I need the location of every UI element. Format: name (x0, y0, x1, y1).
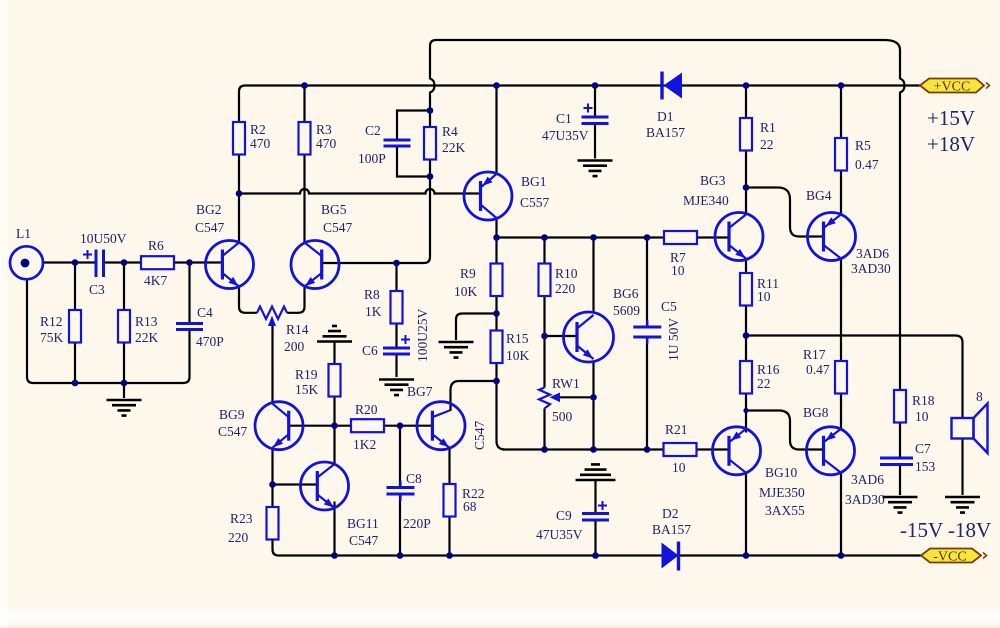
node BG1 emitter on bus (493, 82, 500, 89)
svg-text:BG6: BG6 (613, 286, 639, 301)
svg-text:R13: R13 (135, 314, 158, 329)
resistor R20 (351, 419, 384, 432)
capacitor C3 electrolytic (96, 250, 104, 278)
svg-text:R19: R19 (295, 367, 318, 382)
svg-text:10U50V: 10U50V (80, 231, 127, 246)
ground input section (107, 400, 142, 416)
svg-text:C9: C9 (556, 508, 572, 523)
svg-text:C547: C547 (195, 220, 225, 235)
node R5 top on bus (838, 82, 845, 89)
power flag +VCC (920, 79, 984, 93)
wire ground branch from R9/R15 junction (456, 314, 497, 341)
wire BG1 collector to rail (495, 218, 497, 238)
svg-text:22: 22 (757, 376, 771, 391)
svg-text:C1: C1 (556, 111, 572, 126)
svg-text:15K: 15K (295, 382, 319, 397)
wire speaker bottom to ground (961, 439, 963, 496)
node R12 bottom (72, 380, 79, 387)
resistor R19 (329, 364, 341, 397)
node C8 tap (397, 422, 404, 429)
svg-text:C3: C3 (89, 282, 105, 297)
svg-text:75K: 75K (40, 330, 64, 345)
svg-text:47U35V: 47U35V (536, 527, 583, 542)
node R13 bottom ground (121, 380, 128, 387)
wire base line y=193.5 R2 to BG1 (239, 189, 481, 194)
svg-text:BG4: BG4 (806, 188, 832, 203)
svg-text:3AX55: 3AX55 (765, 503, 805, 518)
ground above C9 inverted (576, 464, 616, 480)
node C8 bottom rail (397, 552, 404, 559)
svg-text:MJE340: MJE340 (683, 193, 729, 208)
node BG6 emitter rail (590, 446, 597, 453)
diode D1 BA157 (664, 73, 683, 99)
diode D2 BA157 (662, 543, 679, 569)
transistor BG4 3AD6 pnp (808, 213, 856, 261)
svg-text:RW1: RW1 (552, 376, 580, 391)
svg-text:153: 153 (915, 459, 936, 474)
wire input ground stub (123, 383, 125, 398)
svg-text:BG1: BG1 (521, 174, 547, 189)
svg-text:BG3: BG3 (700, 173, 726, 188)
svg-text:C7: C7 (915, 441, 931, 456)
wire BG7 emitter R22 (448, 448, 450, 556)
svg-text:R2: R2 (250, 122, 266, 137)
resistor R2 (233, 122, 245, 155)
svg-text:R6: R6 (148, 238, 164, 253)
wire feedback line from output to R4/BG5 base (322, 40, 436, 263)
svg-text:C557: C557 (520, 195, 550, 210)
wire R1 branch (745, 86, 747, 215)
svg-text:C547: C547 (472, 420, 487, 450)
resistor R5 (835, 138, 847, 171)
node C5 top rail (644, 234, 651, 241)
transistor BG9 C547 mirrored (255, 402, 303, 450)
svg-text:C5: C5 (661, 299, 677, 314)
svg-text:BG10: BG10 (765, 465, 798, 480)
svg-text:10: 10 (915, 409, 929, 424)
svg-text:220P: 220P (403, 516, 431, 531)
svg-text:BA157: BA157 (646, 125, 685, 140)
wire output right vertical x=900 (436, 40, 905, 495)
svg-text:+18V: +18V (927, 132, 975, 156)
node R2 bottom / BG2 collector (236, 190, 243, 197)
node R15 bottom BG7 collector (493, 378, 500, 385)
node BG1 collector rail (493, 234, 500, 241)
node BG9 base R19 R20 (331, 422, 338, 429)
svg-text:R21: R21 (665, 422, 688, 437)
svg-text:8: 8 (976, 389, 983, 404)
capacitor C9 electrolytic (582, 514, 609, 521)
ground below C7 (883, 497, 918, 513)
svg-text:R9: R9 (460, 266, 476, 281)
node BG10 collector rail (743, 552, 750, 559)
wire VCC top bus y=85.5 (239, 86, 920, 123)
svg-text:BG11: BG11 (347, 516, 379, 531)
wire RW1 wiper to BG6 emitter (558, 396, 594, 398)
svg-text:10: 10 (671, 263, 685, 278)
node R3 top on bus (301, 82, 308, 89)
ground above R19 inverted (317, 326, 352, 342)
wire BG3 emitter R11 (745, 259, 747, 336)
node C2 bottom / R4 bottom (427, 173, 434, 180)
svg-text:C2: C2 (365, 123, 381, 138)
wire R15 bottom to BG7 collector (451, 381, 497, 411)
svg-text:22K: 22K (442, 140, 466, 155)
svg-text:C6: C6 (362, 343, 378, 358)
capacitor C1 electrolytic (582, 117, 609, 124)
svg-text:R16: R16 (757, 362, 780, 377)
node C1 on bus (592, 82, 599, 89)
node input L1 R12 (72, 259, 79, 266)
speaker (952, 418, 974, 439)
svg-text:R23: R23 (230, 511, 253, 526)
svg-text:D2: D2 (662, 506, 679, 521)
node C2 top / R4 top (427, 107, 434, 114)
transistor BG2 C547 (206, 241, 254, 289)
svg-text:BG9: BG9 (219, 407, 245, 422)
node BG8 collector rail (838, 552, 845, 559)
svg-text:C547: C547 (218, 424, 248, 439)
svg-text:L1: L1 (16, 226, 31, 241)
node BG5 base / R8 top (393, 260, 400, 267)
node C9 bottom rail (592, 552, 599, 559)
wire C9 branch (594, 480, 596, 556)
ground below speaker (945, 497, 980, 513)
node RW1 bottom rail (541, 446, 548, 453)
wire BG1 emitter to bus (495, 86, 497, 175)
node BG9 emitter BG11 base R23 (269, 481, 276, 488)
svg-text:R5: R5 (855, 138, 871, 153)
resistor R21 (664, 443, 697, 456)
svg-text:1K: 1K (365, 304, 382, 319)
resistor R4 (424, 127, 436, 160)
svg-text:500: 500 (552, 409, 573, 424)
wire R14 wiper to BG9 collector (271, 324, 273, 405)
wire R13 branch (123, 263, 125, 384)
ground below C6 (379, 380, 414, 396)
wire R16 BG10 chain (745, 336, 747, 556)
node RW1 wiper BG6 emitter (590, 394, 597, 401)
svg-text:100U25V: 100U25V (415, 309, 430, 362)
svg-text:C4: C4 (197, 305, 213, 320)
svg-text:100P: 100P (358, 151, 386, 166)
transistor BG5 C547 mirrored (291, 241, 339, 289)
svg-text:5609: 5609 (613, 303, 640, 318)
node R1 bottom BG3 collector (743, 184, 750, 191)
svg-text:10: 10 (672, 460, 686, 475)
svg-text:BG2: BG2 (196, 202, 222, 217)
svg-text:BG8: BG8 (803, 405, 829, 420)
wire BG5 collector branch R3 (303, 86, 305, 243)
wire BG2 collector branch (238, 154, 240, 243)
resistor R7 (664, 231, 697, 244)
wire C5 branch (646, 238, 648, 450)
capacitor C8 (387, 488, 415, 495)
svg-text:470: 470 (316, 136, 337, 151)
svg-text:BA157: BA157 (652, 522, 691, 537)
svg-text:4K7: 4K7 (144, 273, 167, 288)
svg-text:R18: R18 (912, 393, 935, 408)
capacitor C2 (384, 140, 411, 146)
input connector L1 (10, 246, 43, 279)
transistor BG8 3AD6 pnp (807, 427, 855, 475)
capacitor C7 (880, 458, 913, 465)
potentiometer R14 zigzag (257, 307, 287, 320)
resistor R23 (267, 507, 279, 540)
wire mid rail y=237.5 (497, 236, 730, 238)
resistor R15 (491, 331, 503, 364)
svg-text:D1: D1 (657, 109, 674, 124)
wire input line L1 to BG2 base (43, 261, 222, 263)
node R6 C4 BG2 base (186, 259, 193, 266)
svg-text:R15: R15 (506, 331, 529, 346)
transistor BG10 MJE350 pnp (713, 427, 761, 475)
wire S-curve BG3 collector to BG4 base (746, 188, 824, 237)
svg-text:-VCC: -VCC (933, 550, 966, 565)
wire rail y=449.5 (503, 448, 730, 450)
svg-text:-15V -18V: -15V -18V (900, 518, 991, 542)
capacitor C4 (176, 324, 203, 330)
resistor R3 (299, 122, 311, 155)
svg-text:R4: R4 (442, 124, 458, 139)
svg-text:47U35V: 47U35V (542, 128, 589, 143)
resistor R12 (69, 310, 81, 343)
transistor BG11 C547 (301, 462, 349, 510)
wire R20 to BG7 base with C8 tap (335, 425, 433, 427)
resistor R18 (894, 390, 906, 423)
wire C4 branch and input ground rail (27, 263, 190, 384)
resistor R16 (740, 361, 752, 394)
svg-text:1U 50V: 1U 50V (666, 318, 681, 361)
wire C2 parallel loop (397, 111, 430, 177)
transistor BG1 C557 pnp (464, 172, 512, 220)
svg-text:MJE350: MJE350 (759, 485, 805, 500)
node R10 top rail (541, 234, 548, 241)
svg-text:C547: C547 (323, 220, 353, 235)
wire BG6 collector and emitter (592, 238, 594, 450)
wire BG9 base to R19/R20 node (289, 425, 335, 427)
wire C1 branch (594, 86, 596, 159)
resistor R11 (740, 273, 752, 306)
svg-text:10: 10 (757, 289, 771, 304)
svg-text:C547: C547 (349, 533, 379, 548)
wire R8 C6 branch (395, 263, 397, 377)
resistor R8 (391, 291, 403, 324)
svg-text:R10: R10 (555, 266, 578, 281)
svg-text:BG5: BG5 (321, 202, 347, 217)
resistor R1 (740, 118, 752, 151)
svg-text:220: 220 (555, 281, 576, 296)
svg-text:R8: R8 (364, 287, 380, 302)
resistor R13 (118, 310, 130, 343)
svg-text:+15V: +15V (927, 106, 975, 130)
wire BG2 emitter to R14 (239, 287, 257, 313)
node R1 top on bus (743, 82, 750, 89)
wire R9 R15 chain (497, 238, 506, 450)
svg-text:C8: C8 (406, 471, 422, 486)
svg-text:0.47: 0.47 (855, 157, 879, 172)
svg-text:470P: 470P (196, 334, 224, 349)
svg-text:R17: R17 (803, 347, 826, 362)
wire BG6 base (545, 335, 578, 337)
svg-text:+VCC: +VCC (934, 80, 971, 95)
ground at R9/R15 junction (439, 342, 474, 358)
svg-text:3AD30: 3AD30 (851, 261, 891, 276)
svg-text:R1: R1 (760, 120, 776, 135)
capacitor C6 electrolytic (383, 348, 410, 354)
resistor R9 (491, 264, 503, 297)
node BG11 emitter rail (331, 552, 338, 559)
wire R10 RW1 chain (543, 238, 545, 450)
svg-text:22: 22 (760, 137, 774, 152)
wire output rail y=335.5 to speaker (746, 336, 963, 419)
svg-text:R20: R20 (355, 402, 378, 417)
power flag -VCC (921, 549, 981, 563)
svg-text:68: 68 (463, 499, 477, 514)
node R22 bottom rail (446, 552, 453, 559)
wire BG4 collector to output rail and R17 (840, 259, 842, 556)
wire BG11 emitter to rail (333, 502, 335, 556)
wire bottom rail y=555.5 (273, 540, 922, 556)
svg-text:10K: 10K (506, 348, 530, 363)
capacitor C5 (633, 327, 661, 337)
wire C8 branch (399, 426, 401, 556)
svg-text:200: 200 (284, 339, 305, 354)
node R11 bottom output rail (743, 332, 750, 339)
potentiometer RW1 zigzag vertical with wiper arrow (539, 388, 550, 409)
svg-text:3AD30: 3AD30 (845, 492, 885, 507)
ground below C1 (578, 161, 613, 177)
transistor BG7 C547 (417, 402, 465, 450)
node C3 R13 (121, 259, 128, 266)
svg-text:0.47: 0.47 (806, 362, 830, 377)
node R10 bottom BG6 base (541, 333, 548, 340)
svg-text:R3: R3 (316, 122, 332, 137)
resistor R22 (444, 484, 456, 517)
svg-text:3AD6: 3AD6 (856, 246, 889, 261)
svg-text:10K: 10K (454, 284, 478, 299)
node R9 bottom ground tap (493, 310, 500, 317)
svg-text:1K2: 1K2 (353, 437, 376, 452)
resistor R10 (539, 264, 551, 297)
svg-text:22K: 22K (135, 330, 159, 345)
wire R5 branch to BG4 emitter (840, 86, 842, 215)
svg-text:470: 470 (250, 136, 271, 151)
resistor R6 (141, 256, 174, 269)
wire R19 vertical (333, 342, 335, 465)
svg-text:220: 220 (228, 530, 249, 545)
wire BG9 emitter to BG11 base and R23 (273, 448, 318, 508)
resistor R17 (835, 361, 847, 394)
transistor BG6 5609 (564, 312, 614, 362)
wire BG5 emitter to R14 (287, 287, 305, 313)
svg-text:R12: R12 (40, 314, 63, 329)
svg-text:BG7: BG7 (407, 384, 433, 399)
wire R12 branch (74, 263, 76, 384)
transistor BG3 MJE340 (715, 213, 763, 261)
node R16 bottom BG8 base tap (743, 408, 748, 413)
svg-text:3AD6: 3AD6 (851, 472, 884, 487)
node BG6 collector rail (590, 234, 597, 241)
wire S-curve to BG8 base (746, 411, 824, 450)
node C5 bottom rail (644, 446, 651, 453)
svg-text:R14: R14 (286, 322, 309, 337)
